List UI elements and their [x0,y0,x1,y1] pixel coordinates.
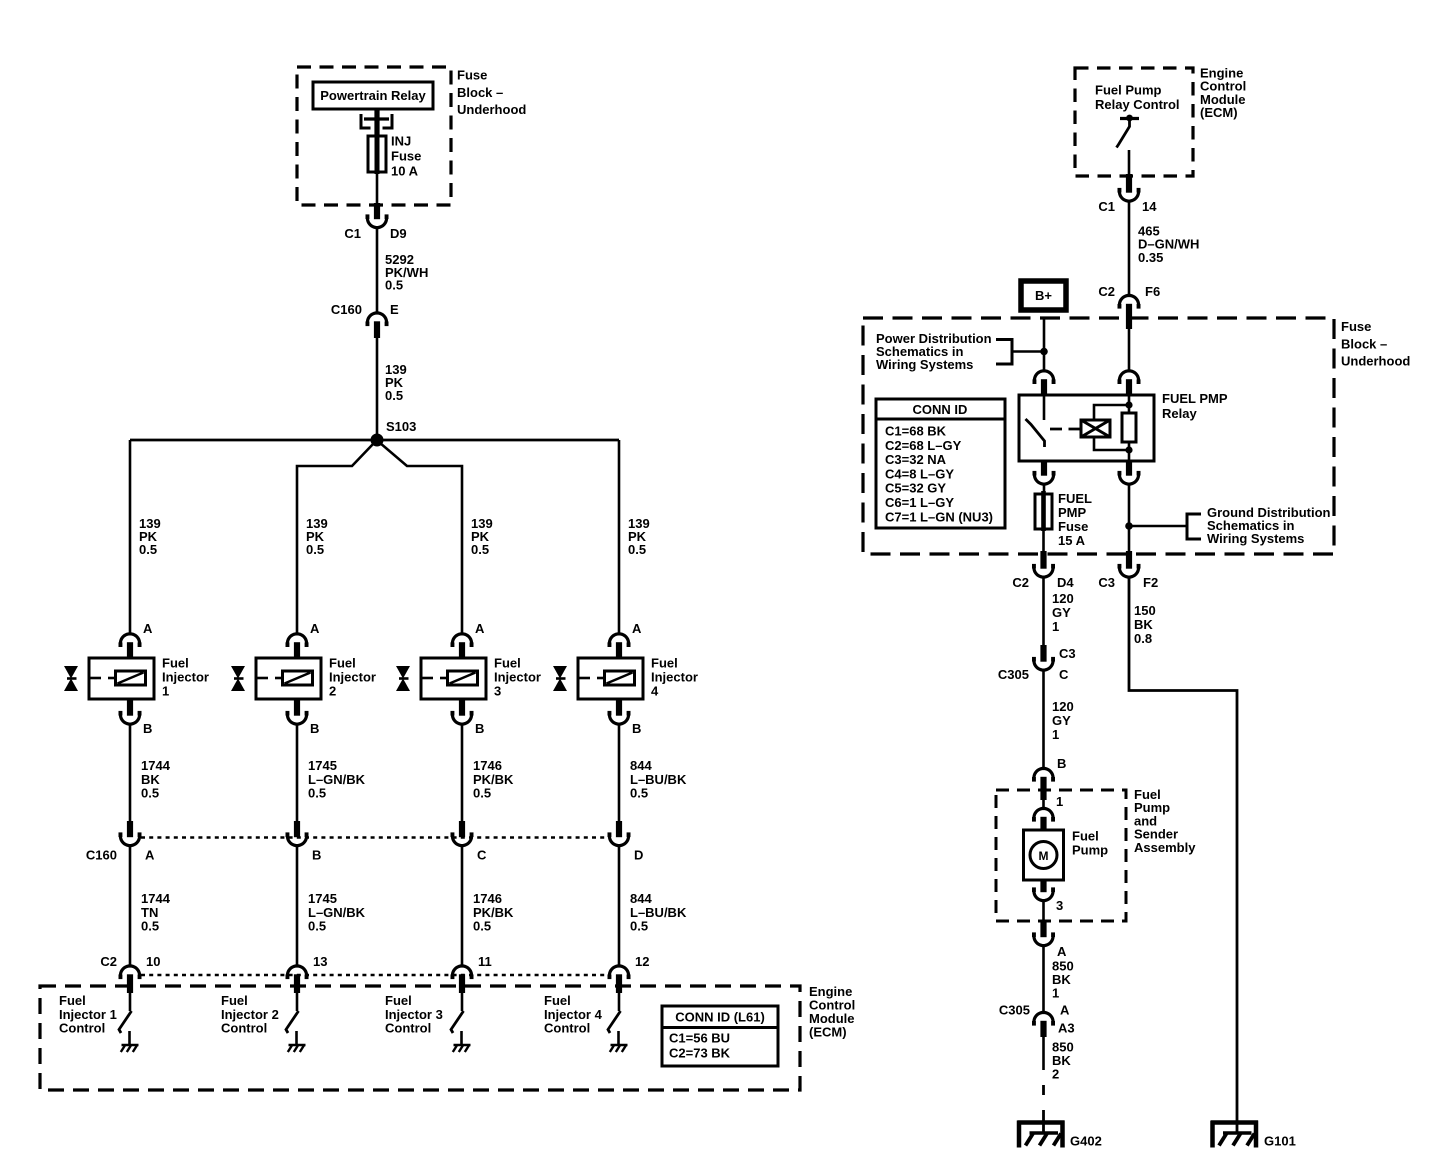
svg-text:G402: G402 [1070,1134,1102,1149]
svg-text:10 A: 10 A [391,164,419,179]
injector 2 internal dashes [256,677,268,680]
svg-text:INJ: INJ [391,134,411,149]
svg-text:0.35: 0.35 [1138,250,1163,265]
svg-text:L–GN/BK: L–GN/BK [308,905,366,920]
fuel injector 2 box [256,658,321,699]
svg-text:Wiring Systems: Wiring Systems [1207,531,1304,546]
wire branch injector 2 diagonal [297,443,374,635]
svg-text:1746: 1746 [473,891,502,906]
wire B into pump box [1042,800,1045,810]
fuse FUEL PMP 15A [1035,494,1052,529]
svg-text:C160: C160 [86,848,117,863]
wire dashed to G402 [1042,1085,1045,1095]
node relay coil top [1125,401,1132,408]
svg-text:Underhood: Underhood [1341,354,1410,369]
svg-text:Fuel: Fuel [494,656,521,671]
svg-text:11: 11 [478,954,492,969]
svg-text:1: 1 [1052,727,1059,742]
connector pump pin 1 [1034,808,1053,818]
svg-text:D9: D9 [390,226,407,241]
svg-text:Relay: Relay [1162,406,1197,421]
svg-text:B: B [1057,756,1066,771]
connector B fuel pump harness [1034,768,1053,778]
ECM internal ground injector 1 [128,1031,131,1045]
svg-text:Injector: Injector [329,670,376,685]
connector C160 pin D [609,836,628,846]
svg-text:C305: C305 [999,1003,1030,1018]
svg-text:GY: GY [1052,713,1071,728]
fuel pump relay control driver switch [1120,117,1139,120]
ECM dashed box (left) [40,986,800,1090]
svg-text:0.5: 0.5 [628,542,646,557]
fuse block underhood (right) dashed box [863,318,1334,554]
relay linkage dashed [1050,428,1081,431]
svg-text:(ECM): (ECM) [1200,105,1238,120]
wire injector 3 to C160 [461,724,464,824]
ground G402 [1018,1121,1065,1148]
svg-text:C5=32 GY: C5=32 GY [885,481,946,496]
svg-text:C: C [477,848,487,863]
svg-text:FUEL PMP: FUEL PMP [1162,391,1228,406]
svg-text:1744: 1744 [141,891,171,906]
svg-text:1744: 1744 [141,758,171,773]
connector A injector 3 [452,634,471,644]
svg-text:4: 4 [651,684,659,699]
wire 120 GY upper [1042,577,1045,646]
svg-text:Injector 3: Injector 3 [385,1007,443,1022]
svg-text:A: A [310,621,320,636]
injector 2 solenoid [283,671,313,685]
svg-text:Fuel: Fuel [651,656,678,671]
svg-text:M: M [1039,849,1049,863]
fuel pump motor [1024,830,1064,880]
connector relay pin top-left [1034,371,1053,381]
wire C160 to C2 col 2 [296,845,299,967]
svg-text:1: 1 [162,684,169,699]
svg-text:Fuse: Fuse [1341,319,1371,334]
svg-text:1745: 1745 [308,758,337,773]
connector C1 D9 [367,218,386,228]
connector relay pin top-right [1119,371,1138,381]
wire branch injector 3 diagonal [380,443,462,635]
wire F6 to relay [1128,329,1131,372]
injector 4 internal dashes [578,677,590,680]
svg-text:C1: C1 [344,226,361,241]
connector C2 D4 [1034,567,1053,577]
connector C305 pin A/A3 [1034,1012,1053,1022]
svg-text:2: 2 [329,684,336,699]
connector A below pump box [1034,936,1053,946]
injector 4 solenoid [605,671,635,685]
svg-text:150: 150 [1134,603,1156,618]
svg-text:G101: G101 [1264,1134,1296,1149]
svg-text:A3: A3 [1058,1021,1075,1036]
svg-text:D: D [634,848,643,863]
relay coil box with X [1081,420,1110,437]
svg-text:Fuel: Fuel [544,993,571,1008]
wire C160 to C2 col 4 [618,845,621,967]
wire driver to C1 [1128,150,1131,176]
ECM dashed box (right top) [1075,68,1193,176]
svg-text:Assembly: Assembly [1134,840,1196,855]
connector C160 pin A [120,836,139,846]
svg-text:120: 120 [1052,591,1074,606]
svg-text:Block –: Block – [457,85,503,100]
svg-text:12: 12 [635,954,649,969]
svg-text:C2: C2 [1012,575,1029,590]
wire node to ground bracket [1129,525,1187,528]
svg-text:(ECM): (ECM) [809,1025,847,1040]
injector 2 nozzle symbol [231,666,245,679]
B+ power feed box [1021,281,1066,310]
connector A injector 1 [120,634,139,644]
svg-text:B: B [312,848,321,863]
svg-text:Control: Control [544,1021,590,1036]
svg-text:Control: Control [59,1021,105,1036]
wire powertrain relay to fuse [374,109,379,136]
wire injector 4 to C160 [618,724,621,824]
svg-text:Fuse: Fuse [1058,519,1088,534]
svg-text:C3=32 NA: C3=32 NA [885,452,947,467]
svg-text:120: 120 [1052,699,1074,714]
svg-text:Fuel: Fuel [59,993,86,1008]
wire relay to fuse [1043,484,1046,495]
svg-text:C305: C305 [998,667,1029,682]
fuel injector 4 box [578,658,643,699]
svg-text:B: B [310,721,319,736]
ECM driver switch injector 2 [296,993,299,1011]
ECM driver switch injector 3 [461,993,464,1011]
svg-text:C4=8 L–GY: C4=8 L–GY [885,466,954,481]
wire injector 2 to C160 [296,724,299,824]
svg-text:C1: C1 [1098,199,1115,214]
connector relay pin bottom-right [1119,474,1138,484]
wire 850 BK 2 [1042,1036,1045,1070]
svg-text:1: 1 [1052,986,1059,1001]
svg-text:FUEL: FUEL [1058,491,1092,506]
svg-text:CONN ID (L61): CONN ID (L61) [675,1010,765,1025]
svg-text:Control: Control [221,1021,267,1036]
C2 harness dotted line [141,974,609,977]
svg-text:C2=73 BK: C2=73 BK [669,1046,731,1061]
svg-text:13: 13 [313,954,327,969]
svg-text:1: 1 [1052,619,1059,634]
connector C2 pin 12 [609,966,628,976]
svg-text:Fuel Pump: Fuel Pump [1095,83,1162,98]
connector C2 F6 [1119,295,1138,305]
ECM internal ground injector 2 [295,1031,298,1045]
connector C160 pin C [452,836,471,846]
injector 3 nozzle symbol [396,666,410,679]
connector B injector 3 [452,714,471,724]
injector 3 internal dashes [421,677,433,680]
svg-text:D4: D4 [1057,575,1074,590]
svg-text:C160: C160 [331,302,362,317]
injector 3 solenoid [448,671,478,685]
injector 1 internal dashes [89,677,101,680]
svg-text:C2=68 L–GY: C2=68 L–GY [885,438,962,453]
svg-text:Fuel: Fuel [221,993,248,1008]
svg-text:10: 10 [146,954,160,969]
CONN ID table (fuse block) [876,399,1005,528]
svg-text:B: B [632,721,641,736]
svg-text:A: A [1060,1003,1070,1018]
svg-text:3: 3 [494,684,501,699]
svg-text:C2: C2 [1098,284,1115,299]
connector A injector 4 [609,634,628,644]
svg-text:0.5: 0.5 [630,786,648,801]
svg-text:L–GN/BK: L–GN/BK [308,772,366,787]
svg-text:PK/BK: PK/BK [473,772,514,787]
svg-text:E: E [390,302,399,317]
connector B injector 2 [287,714,306,724]
ECM driver switch injector 1 [129,993,132,1011]
svg-text:Injector 4: Injector 4 [544,1007,603,1022]
relay coil bracket wires [1094,405,1129,420]
ECM driver switch injector 4 [618,993,621,1011]
svg-text:BK: BK [1134,617,1153,632]
svg-text:C3: C3 [1098,575,1115,590]
wire bracket to B+ feed node [1012,350,1044,353]
svg-text:PMP: PMP [1058,505,1087,520]
svg-text:Injector: Injector [494,670,541,685]
svg-text:C6=1 L–GY: C6=1 L–GY [885,495,954,510]
svg-text:F2: F2 [1143,575,1158,590]
svg-text:A: A [143,621,153,636]
connector C2 pin 11 [452,966,471,976]
wire branch injector 4 [618,440,621,635]
connector A injector 2 [287,634,306,644]
wire relay to ground node [1128,484,1131,555]
svg-text:A: A [632,621,642,636]
svg-text:0.5: 0.5 [308,919,326,934]
wire C160 to C2 col 3 [461,845,464,967]
svg-text:Fuse: Fuse [457,68,487,83]
svg-text:CONN ID: CONN ID [913,402,968,417]
svg-text:L–BU/BK: L–BU/BK [630,772,687,787]
wire 120 GY lower [1042,670,1045,770]
svg-text:Control: Control [385,1021,431,1036]
svg-text:14: 14 [1142,199,1157,214]
connector C2 pin 13 [287,966,306,976]
fuse INJ 10A [368,136,386,172]
svg-text:F6: F6 [1145,284,1160,299]
svg-text:Fuel: Fuel [162,656,189,671]
svg-text:A: A [1057,944,1067,959]
svg-text:Wiring Systems: Wiring Systems [876,357,973,372]
svg-text:Block –: Block – [1341,336,1387,351]
svg-text:0.8: 0.8 [1134,631,1152,646]
svg-text:0.5: 0.5 [139,542,157,557]
svg-text:C1=56 BU: C1=56 BU [669,1031,730,1046]
svg-text:C: C [1059,667,1069,682]
wire branch injector 1 [129,440,132,635]
svg-text:B: B [143,721,152,736]
wire pin 3 out of box [1042,900,1045,922]
svg-text:Injector 2: Injector 2 [221,1007,279,1022]
svg-text:S103: S103 [386,419,416,434]
wire injector 1 to C160 [129,724,132,824]
svg-text:Relay Control: Relay Control [1095,97,1180,112]
connector B injector 4 [609,714,628,724]
connector C160 E [367,313,386,323]
svg-text:Fuel: Fuel [329,656,356,671]
svg-text:0.5: 0.5 [630,919,648,934]
injector 1 solenoid [116,671,146,685]
connector B injector 1 [120,714,139,724]
ground G101 [1211,1121,1258,1148]
connector C2 pin 10 [120,966,139,976]
svg-text:0.5: 0.5 [473,919,491,934]
splice S103 [371,434,384,447]
node power feed junction [1040,348,1048,356]
connector C3 F2 [1119,567,1138,577]
svg-text:0.5: 0.5 [308,786,326,801]
svg-text:1746: 1746 [473,758,502,773]
svg-text:C3: C3 [1059,646,1076,661]
svg-text:0.5: 0.5 [385,278,403,293]
CONN ID (L61) table [662,1006,778,1066]
wire bus horizontal [130,439,619,442]
svg-text:C1=68 BK: C1=68 BK [885,424,947,439]
ECM internal ground injector 3 [460,1031,463,1045]
connector relay pin bottom-left [1034,474,1053,484]
svg-text:0.5: 0.5 [306,542,324,557]
connector C160 pin B [287,836,306,846]
svg-text:0.5: 0.5 [141,786,159,801]
connector pump pin 3 [1034,891,1053,901]
svg-text:Fuse: Fuse [391,149,421,164]
node ground distribution junction [1125,522,1133,530]
fuel injector 1 box [89,658,154,699]
injector 4 nozzle symbol [553,666,567,679]
svg-text:0.5: 0.5 [471,542,489,557]
C160 harness dotted line [141,836,609,839]
svg-text:3: 3 [1056,898,1063,913]
svg-text:Injector 1: Injector 1 [59,1007,117,1022]
svg-text:0.5: 0.5 [141,919,159,934]
powertrain relay box [313,82,433,109]
svg-text:Fuel: Fuel [385,993,412,1008]
svg-text:Injector: Injector [162,670,209,685]
fuse block underhood (left) dashed box [297,67,451,205]
svg-text:Pump: Pump [1072,843,1108,858]
connector C305 pin C3/C [1034,660,1053,670]
wire 139 trunk [376,338,379,440]
connector C1 14 [1119,191,1138,201]
ECM internal ground injector 4 [617,1031,620,1045]
svg-text:BK: BK [141,772,160,787]
svg-text:C7=1 L–GN (NU3): C7=1 L–GN (NU3) [885,509,993,524]
wire C160 to C2 col 1 [129,845,132,967]
node relay coil bottom [1125,446,1132,453]
svg-text:Fuel: Fuel [1072,829,1099,844]
svg-text:0.5: 0.5 [385,388,403,403]
wire F2 to G101 jog [1129,577,1237,1134]
svg-text:PK/BK: PK/BK [473,905,514,920]
svg-text:Injector: Injector [651,670,698,685]
svg-text:B: B [475,721,484,736]
wire 5292 [376,227,379,314]
svg-text:1745: 1745 [308,891,337,906]
power distribution bracket [996,340,1012,365]
relay output terminal bracket [361,114,371,128]
svg-text:A: A [145,848,155,863]
svg-text:A: A [475,621,485,636]
relay switch [1043,395,1046,420]
svg-text:15 A: 15 A [1058,533,1086,548]
svg-text:Powertrain Relay: Powertrain Relay [320,88,426,103]
wire B+ feed vertical [1043,318,1046,372]
relay coil element [1128,396,1131,413]
svg-text:GY: GY [1052,605,1071,620]
injector 1 nozzle symbol [64,666,78,679]
fuel injector 3 box [421,658,486,699]
svg-text:844: 844 [630,891,652,906]
svg-text:C2: C2 [100,954,117,969]
FUEL PMP relay box [1019,395,1154,461]
svg-text:L–BU/BK: L–BU/BK [630,905,687,920]
svg-text:TN: TN [141,905,158,920]
svg-text:1: 1 [1056,794,1063,809]
svg-text:B+: B+ [1035,288,1052,303]
svg-text:844: 844 [630,758,652,773]
wire 850 BK 1 [1042,945,1045,1013]
svg-text:0.5: 0.5 [473,786,491,801]
svg-text:Underhood: Underhood [457,102,526,117]
wire 465 [1128,201,1131,297]
fuel pump and sender assembly dashed box [996,790,1126,921]
svg-text:2: 2 [1052,1067,1059,1082]
ground distribution bracket [1187,514,1201,539]
